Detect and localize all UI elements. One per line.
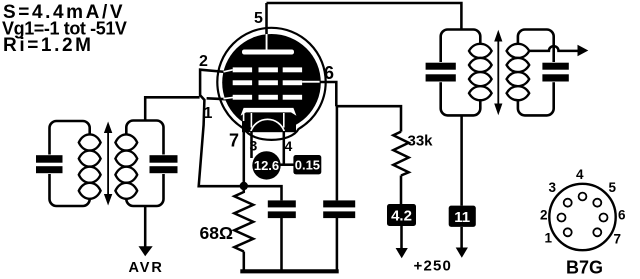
svg-text:0.15: 0.15 [295,158,320,173]
svg-text:2: 2 [540,208,548,223]
svg-text:33k: 33k [408,133,434,150]
svg-text:4.2: 4.2 [391,208,412,225]
svg-text:6: 6 [618,208,626,223]
svg-text:1: 1 [545,231,553,246]
svg-text:4: 4 [285,138,293,154]
svg-text:4: 4 [576,167,584,182]
svg-text:3: 3 [549,180,557,195]
svg-text:+250: +250 [414,257,453,274]
svg-text:1: 1 [204,105,213,122]
svg-text:2: 2 [199,53,208,70]
svg-text:Ri=1.2M: Ri=1.2M [3,35,94,56]
svg-text:68Ω: 68Ω [200,223,234,243]
svg-text:AVR: AVR [129,260,164,276]
svg-text:3: 3 [250,138,258,154]
svg-text:7: 7 [614,232,622,247]
svg-text:6: 6 [324,63,334,83]
svg-text:5: 5 [609,180,617,195]
svg-text:7: 7 [229,131,239,151]
svg-text:5: 5 [254,10,263,27]
svg-text:12.6: 12.6 [254,158,279,173]
svg-text:B7G: B7G [566,258,603,278]
svg-text:11: 11 [454,209,470,226]
